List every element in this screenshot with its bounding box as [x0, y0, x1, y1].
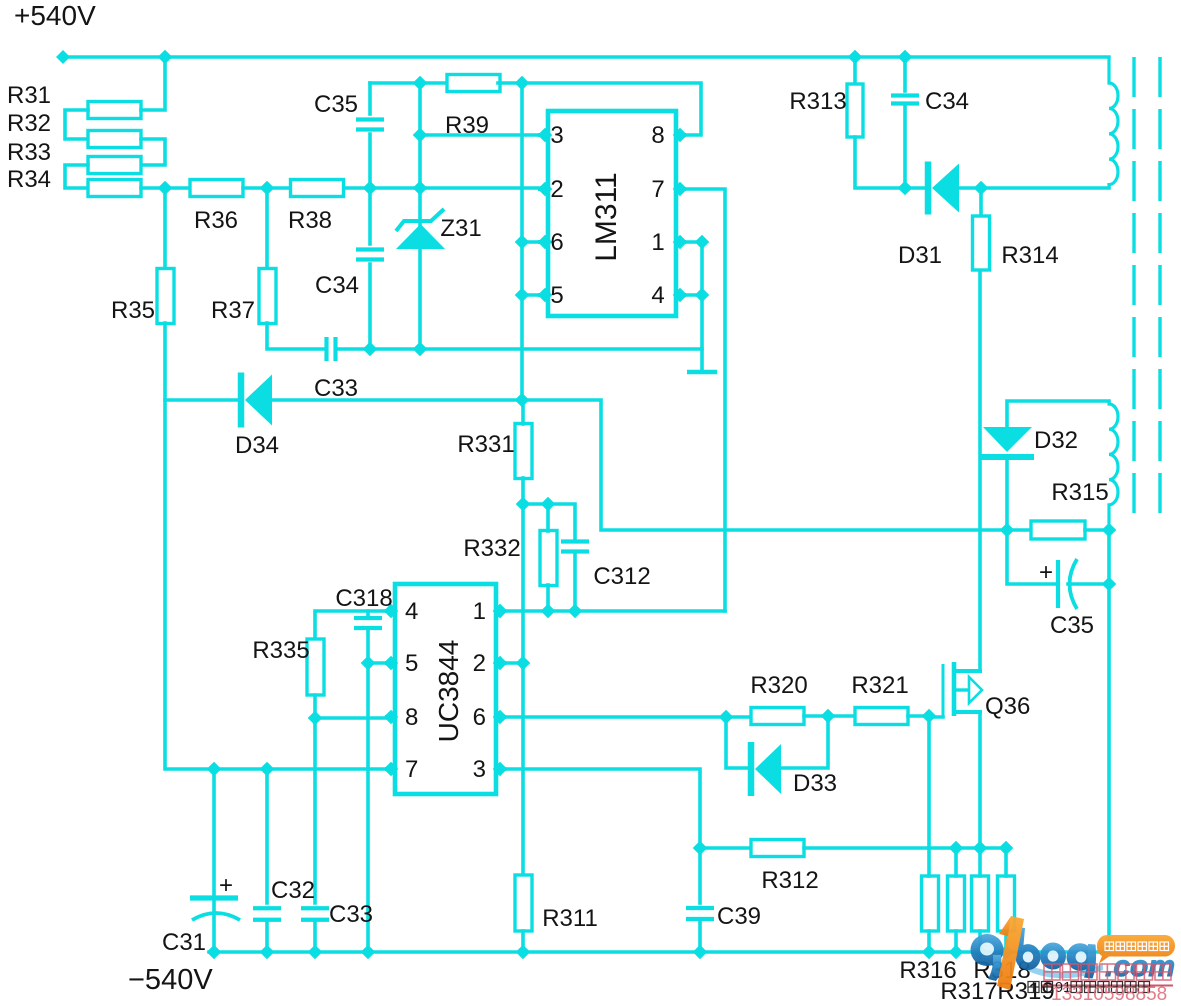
resistor R36	[190, 180, 243, 197]
junction R332 top row b	[541, 497, 556, 512]
svg-text:R315: R315	[1051, 479, 1108, 506]
wire C33b to rail	[313, 920, 317, 952]
wire R35 down-left vertical	[165, 323, 391, 769]
svg-text:6: 6	[550, 229, 563, 256]
junction pin5 C318	[361, 656, 376, 671]
junction R39 right	[515, 76, 530, 91]
wire D34 to x601	[268, 400, 1006, 530]
ground	[687, 370, 717, 375]
wire R320-R321	[804, 714, 855, 718]
resistor R312	[751, 840, 804, 857]
wire gate node down	[927, 716, 931, 848]
pin 1 stub UC3844	[496, 609, 504, 613]
junction x420 pin3 row	[413, 128, 428, 143]
wire drain up	[978, 270, 982, 671]
svg-text:4: 4	[651, 282, 664, 309]
svg-text:7: 7	[405, 756, 418, 783]
junction pin7 row C32	[260, 762, 275, 777]
svg-text:D32: D32	[1034, 427, 1078, 454]
wire R335gnd chain	[313, 718, 317, 903]
junction rail left end	[56, 50, 70, 64]
resistor R32	[88, 131, 141, 148]
svg-text:C312: C312	[593, 563, 650, 590]
wire R332/C312 top link	[523, 504, 575, 538]
pin 5 stub UC3844	[387, 661, 395, 665]
svg-text:C34: C34	[925, 88, 969, 115]
junction D31 R314 node	[974, 181, 989, 196]
capacitor C35	[356, 117, 384, 121]
svg-text:R312: R312	[761, 867, 818, 894]
svg-text:1: 1	[473, 598, 486, 625]
junction rail bottom x368	[361, 945, 376, 960]
transformer core line 2	[1158, 57, 1161, 514]
diode D33	[748, 742, 755, 796]
junction rail bottom x267	[260, 945, 275, 960]
pin 3 stub UC3844	[496, 767, 504, 771]
capacitor C32	[253, 906, 281, 910]
junction D31 row C34	[898, 181, 913, 196]
junction pin1 row C312	[568, 604, 583, 619]
junction source row	[973, 841, 988, 856]
resistor R320	[751, 708, 804, 725]
svg-text:UC3844: UC3844	[433, 640, 464, 743]
resistor R35	[157, 269, 174, 324]
junction LM311 pin5 link	[515, 288, 530, 303]
capacitor C34 (top right)	[891, 93, 919, 97]
wire R332 stubs	[546, 504, 550, 531]
wire R37 top	[265, 188, 269, 270]
wire D33 right leg	[779, 716, 828, 768]
svg-text:R38: R38	[288, 207, 332, 234]
svg-text:D34: D34	[235, 432, 279, 459]
junction rail bottom x315	[308, 945, 323, 960]
resistor R332	[540, 531, 557, 586]
wire R331 top	[521, 400, 525, 424]
wire C34 bottom	[368, 264, 372, 349]
wire R311 bottom	[521, 931, 525, 952]
capacitor C33 (horizontal)	[324, 337, 328, 361]
junction main row x370	[363, 181, 378, 196]
junction C33 row x370	[363, 342, 378, 357]
svg-text:Z31: Z31	[440, 215, 481, 242]
junction C35r right	[1102, 577, 1117, 592]
wire C34tr top	[903, 57, 907, 91]
zener Z31	[396, 224, 445, 249]
wire R312 right to bank	[804, 846, 1006, 850]
junction rail bottom x1006	[999, 945, 1014, 960]
node +540V rail	[63, 55, 1109, 58]
junction R320 right	[821, 709, 836, 724]
svg-text:R35: R35	[111, 297, 155, 324]
svg-text:4: 4	[405, 598, 418, 625]
capacitor C35 (electrolytic right)	[1056, 560, 1060, 608]
wire C31 top	[212, 769, 216, 896]
junction R312 C39 node	[693, 841, 708, 856]
junction R335 pin8 row	[308, 711, 323, 726]
wire R331 bottom	[521, 478, 525, 504]
ic U2 UC3844 body	[395, 584, 496, 794]
wire C35 to C34	[368, 134, 372, 244]
wire D33 left leg	[726, 717, 748, 768]
svg-text:C33: C33	[314, 375, 358, 402]
junction rail bottom x980	[973, 945, 988, 960]
wire R37 bottom to C33	[267, 323, 325, 349]
wire pin7 to UC3844 pin1	[684, 189, 725, 611]
resistor R319	[998, 876, 1015, 931]
wire R32-R33 right link	[141, 139, 165, 165]
wire C32 top	[265, 769, 269, 903]
wire C34tr bottom	[903, 104, 907, 188]
capacitor C39	[686, 906, 714, 910]
svg-text:R317: R317	[940, 978, 997, 1005]
svg-text:C35: C35	[1050, 612, 1094, 639]
wire UC pin1 row	[500, 609, 725, 613]
pin 7 stub UC3844	[387, 767, 395, 771]
wire C35r right leg	[1068, 582, 1109, 586]
capacitor C312	[561, 539, 589, 543]
wire R38 to LM311 pin2	[344, 186, 540, 190]
svg-text:R31: R31	[7, 82, 51, 109]
wire R312 left stub	[700, 846, 751, 850]
svg-text:R32: R32	[7, 110, 51, 137]
junction D32 R315 left	[1000, 523, 1015, 538]
pin 6 stub LM311	[540, 240, 548, 244]
resistor R317	[948, 876, 965, 931]
junction LM311 pin6 link	[515, 235, 530, 250]
transistor Q36 source stub	[954, 710, 980, 714]
wire R315 right stub	[1085, 528, 1109, 532]
junction gate node	[922, 709, 937, 724]
wire C35 top stub	[368, 83, 372, 114]
junction R320 left	[719, 710, 734, 725]
wire source down	[978, 712, 982, 848]
resistor R311	[515, 875, 532, 931]
wire D32 bottom	[1005, 457, 1009, 530]
svg-text:R320: R320	[750, 672, 807, 699]
junction rail x165	[158, 50, 173, 65]
wire C31 bottom	[212, 900, 216, 952]
junction pin1 row R332	[541, 604, 556, 619]
junction pin4 node	[695, 288, 710, 303]
diode D31	[925, 162, 932, 215]
svg-text:+: +	[219, 872, 233, 899]
wire R31-R32 left link	[65, 110, 88, 139]
wire UC pin3 row	[500, 769, 700, 848]
pin 8 stub UC3844	[387, 715, 395, 719]
pin 6 stub UC3844	[496, 715, 504, 719]
junction D34 row x522	[515, 393, 530, 408]
junction rail bottom x700	[693, 945, 708, 960]
wire R36-R38	[243, 186, 290, 190]
junction R315 right	[1102, 523, 1117, 538]
diode D34	[238, 373, 245, 428]
junction main row x420	[413, 181, 428, 196]
transistor Q36 arrow	[954, 688, 968, 691]
junction rail bottom x214	[207, 945, 222, 960]
pin 5 stub LM311	[540, 293, 548, 297]
resistor R31	[88, 102, 141, 119]
capacitor C318	[354, 616, 382, 620]
wire R39 right loop to pin8	[498, 83, 701, 135]
junction main row x267	[260, 181, 275, 196]
wire pin5 link	[522, 293, 540, 297]
resistor R316	[922, 876, 939, 931]
svg-text:Q36: Q36	[985, 693, 1030, 720]
svg-text:C34: C34	[315, 272, 359, 299]
junction pin1 node	[695, 235, 710, 250]
transformer core line 1	[1132, 57, 1135, 514]
wire pin6 link	[522, 240, 540, 244]
wire UC pin6 row	[500, 715, 751, 719]
logo watermark 91 site	[971, 916, 1176, 1005]
wire C33 to LM311 ground node	[336, 347, 702, 351]
wire C35r left leg	[1007, 530, 1056, 584]
resistor R315	[1031, 521, 1085, 539]
wire C35 to R39	[370, 81, 447, 85]
wire R33-R34 left link	[65, 165, 88, 188]
svg-text:R36: R36	[194, 207, 238, 234]
wire D31 to winding	[955, 186, 1109, 190]
svg-text:R314: R314	[1001, 242, 1058, 269]
svg-text:2: 2	[550, 176, 563, 203]
pin 8 stub LM311	[676, 133, 684, 137]
pin 7 stub LM311	[676, 187, 684, 191]
wire R315 left stub	[1007, 528, 1031, 532]
capacitor C33 (bottom)	[301, 906, 329, 910]
svg-text:C35: C35	[314, 91, 358, 118]
svg-text:R335: R335	[252, 637, 309, 664]
svg-text:C318: C318	[335, 585, 392, 612]
wire bank stubs top	[927, 848, 931, 876]
junction rail bottom x523	[516, 945, 531, 960]
pin 1 stub LM311	[676, 240, 684, 244]
wire pin node to ground	[700, 295, 704, 371]
svg-text:3: 3	[473, 756, 486, 783]
junction pin1 stub node	[493, 604, 508, 619]
svg-text:−540V: −540V	[128, 964, 213, 996]
svg-text:+: +	[1039, 559, 1053, 586]
pin 4 stub LM311	[676, 293, 684, 297]
wire UC pin5 row	[368, 661, 391, 665]
svg-text:R33: R33	[7, 139, 51, 166]
resistor R38	[291, 180, 344, 197]
wire R313 top	[853, 57, 857, 84]
wire C32 bottom	[265, 920, 269, 952]
resistor R34	[88, 180, 141, 197]
junction main row x165	[158, 181, 173, 196]
svg-text:+540V: +540V	[14, 0, 96, 31]
svg-text:3: 3	[550, 122, 563, 149]
resistor R39	[447, 75, 500, 92]
wire R35 top	[163, 188, 167, 270]
resistor R335	[307, 639, 324, 695]
wire D32 top	[1007, 401, 1109, 427]
svg-text:D33: D33	[793, 770, 837, 797]
svg-text:7: 7	[651, 176, 664, 203]
pin 3 stub LM311	[540, 133, 548, 137]
junction pin7 row C31	[207, 762, 222, 777]
resistor R314	[973, 216, 990, 270]
svg-text:8: 8	[405, 704, 418, 731]
wire R31 right to rail	[141, 57, 165, 110]
svg-text:R331: R331	[457, 431, 514, 458]
wire Z31 vertical	[418, 83, 422, 349]
svg-text:C39: C39	[717, 903, 761, 930]
junction rail C34 right	[898, 50, 913, 65]
svg-text:6: 6	[473, 704, 486, 731]
wire R314 top	[979, 188, 983, 216]
junction rail R313	[848, 50, 863, 65]
transistor Q36 drain stub	[954, 669, 980, 673]
wire R34 to R36	[141, 186, 190, 190]
inductor winding W2	[1109, 401, 1118, 531]
junction rail bottom x956	[949, 945, 964, 960]
svg-text:8: 8	[651, 122, 664, 149]
svg-text:LM311: LM311	[590, 172, 623, 262]
diode D32	[983, 427, 1032, 452]
wire C318 gnd vertical	[366, 663, 370, 952]
junction R39 left	[413, 76, 428, 91]
wire right vertical to rail	[1107, 530, 1111, 952]
node -540V rail	[209, 950, 1109, 953]
svg-text:D31: D31	[898, 242, 942, 269]
wire C39 top	[698, 848, 702, 903]
wire R313 bottom to D31 row	[855, 137, 925, 188]
pin 4 stub UC3844	[387, 609, 395, 613]
capacitor C34	[356, 247, 384, 251]
transistor Q36 gate bar	[942, 664, 945, 717]
resistor R331	[515, 424, 532, 479]
pin 2 stub UC3844	[496, 661, 504, 665]
resistor R321	[855, 708, 908, 725]
svg-text:R37: R37	[211, 297, 255, 324]
wire C39 bottom	[698, 919, 702, 952]
inductor winding W1	[1109, 57, 1118, 188]
wire x420 to LM311 pin3	[420, 133, 540, 137]
wire gate	[929, 715, 943, 719]
transistor Q36 channel bar	[952, 662, 957, 716]
wire C318 stubs	[366, 611, 370, 618]
svg-text:R34: R34	[7, 166, 51, 193]
svg-text:1: 1	[651, 229, 664, 256]
wire pin1-pin4 vertical	[684, 242, 702, 295]
pin 2 stub LM311	[540, 187, 548, 191]
wire C312 bottom	[573, 552, 577, 611]
svg-text:R313: R313	[789, 88, 846, 115]
wire R335 bottom to pin8	[315, 695, 391, 718]
svg-text:C33: C33	[329, 901, 373, 928]
svg-text:R332: R332	[463, 535, 520, 562]
svg-text:R311: R311	[542, 905, 598, 932]
resistor R33	[88, 157, 141, 174]
junction bank top R317	[949, 841, 964, 856]
svg-text:5: 5	[405, 650, 418, 677]
wire D34 anode	[165, 398, 241, 402]
wire UC pin2 link	[500, 661, 523, 665]
resistor R318	[972, 876, 989, 931]
capacitor C31 (electrolytic)	[190, 895, 238, 900]
resistor R37	[259, 269, 276, 324]
junction bank top R319	[999, 841, 1014, 856]
svg-text:R321: R321	[851, 672, 908, 699]
junction rail bottom x929	[922, 945, 937, 960]
svg-text:13310598858: 13310598858	[1051, 984, 1167, 1005]
svg-text:C31: C31	[162, 929, 206, 956]
op-amp U1 LM311 body	[548, 111, 676, 316]
junction R332 top row a	[516, 497, 531, 512]
wire x523 pin2 to R311	[521, 504, 525, 875]
svg-text:2: 2	[473, 650, 486, 677]
junction UC pin2 link	[516, 656, 531, 671]
wire UC pin4 row	[315, 611, 391, 639]
svg-text:C32: C32	[271, 877, 315, 904]
wire bank stubs bottom	[927, 931, 931, 952]
wire x522 vertical	[520, 83, 524, 400]
junction C33 row x420	[413, 342, 428, 357]
svg-text:5: 5	[550, 282, 563, 309]
wire R321 right	[908, 714, 929, 718]
resistor R313	[847, 84, 863, 137]
